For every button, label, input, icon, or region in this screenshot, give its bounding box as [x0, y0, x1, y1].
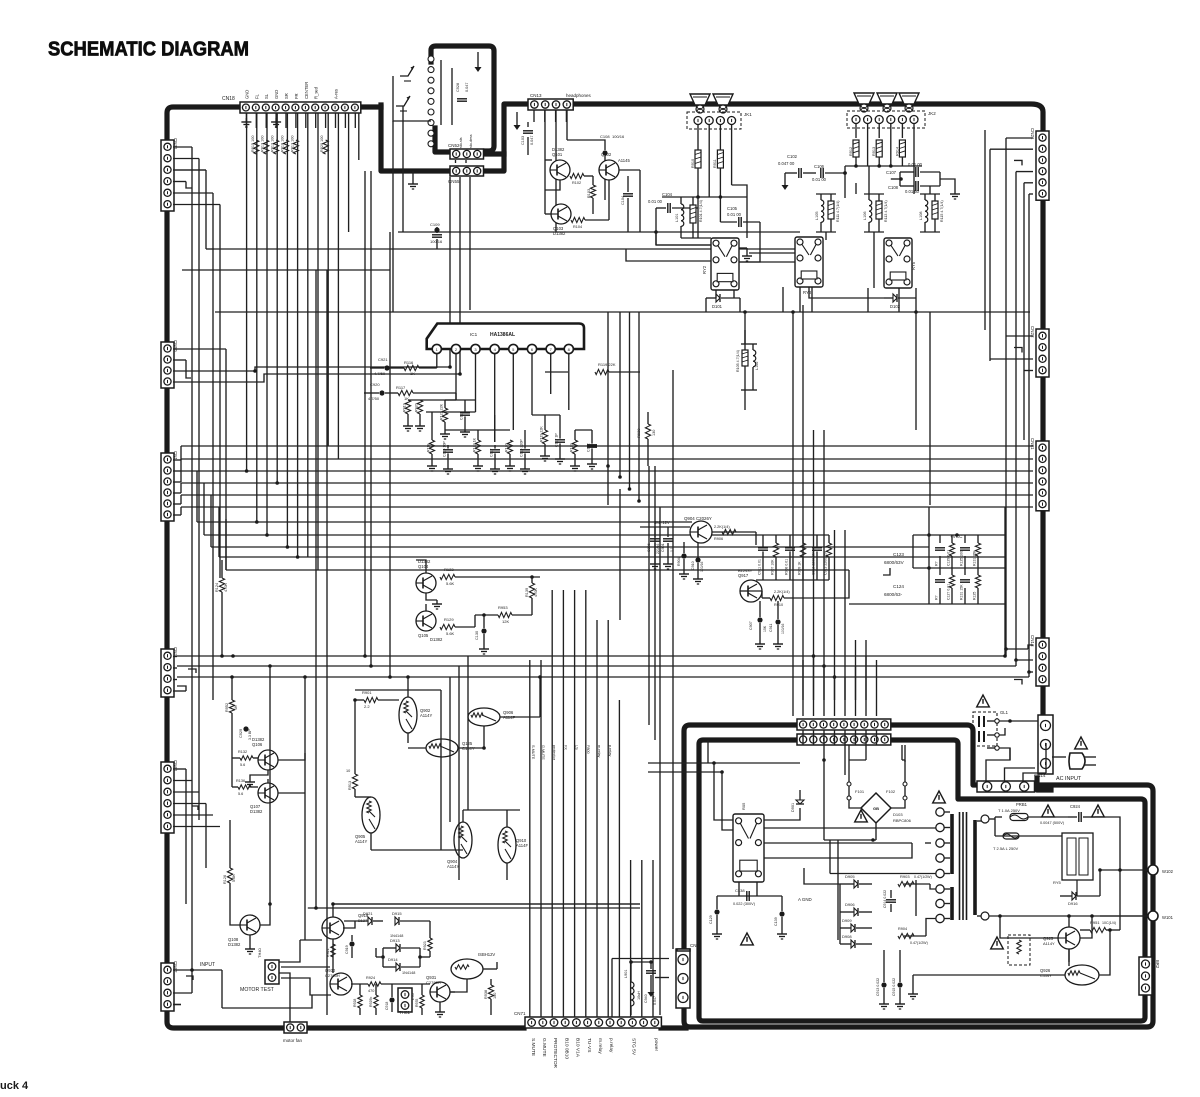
svg-text:R953: R953	[498, 605, 508, 610]
svg-text:6800/63V: 6800/63V	[884, 560, 905, 565]
svg-text:C116 220P: C116 220P	[520, 439, 524, 457]
CN2 stubs	[612, 959, 669, 1018]
svg-text:L901: L901	[624, 970, 628, 978]
bus junction dots	[190, 171, 1007, 972]
AC switch contacts	[987, 719, 1038, 760]
main board border left seg1	[164, 210, 169, 342]
power amp RC cluster	[740, 535, 849, 649]
svg-text:RY5: RY5	[1053, 880, 1061, 885]
JK3 headphone jack interior	[393, 52, 482, 148]
svg-text:S.MUTE: S.MUTE	[531, 745, 535, 760]
svg-text:R929: R929	[636, 428, 641, 438]
fuse PRB1	[998, 802, 1028, 821]
diode D913	[383, 934, 420, 952]
svg-text:100/16: 100/16	[781, 624, 785, 634]
svg-text:Q101: Q101	[552, 152, 563, 157]
svg-text:CN81: CN81	[1030, 438, 1035, 450]
speaker JK1 right	[713, 94, 733, 113]
svg-text:CN3: CN3	[173, 647, 178, 656]
svg-text:C108: C108	[888, 185, 899, 190]
svg-text:GND: GND	[244, 90, 249, 99]
JK1 wires and resistors	[662, 125, 747, 238]
svg-text:R904: R904	[677, 557, 681, 566]
power rail verticals	[793, 130, 985, 716]
svg-text:R914: R914	[895, 147, 899, 156]
svg-text:R136: R136	[236, 779, 245, 783]
connector CN13R	[1030, 635, 1049, 686]
upper horizontal buses	[182, 232, 1030, 312]
svg-text:R123: R123	[444, 567, 454, 572]
svg-text:R113 4.7(1/4): R113 4.7(1/4)	[884, 200, 888, 222]
svg-text:power: power	[653, 1038, 659, 1051]
digital transistor Q905	[355, 797, 380, 844]
svg-text:470K: 470K	[534, 588, 538, 597]
svg-text:A-res: A-res	[334, 89, 339, 99]
svg-text:2.2K(1/4): 2.2K(1/4)	[714, 525, 730, 529]
svg-text:D909: D909	[842, 918, 852, 923]
svg-text:R125: R125	[973, 592, 977, 600]
svg-text:C117: C117	[490, 449, 494, 457]
svg-text:R116: R116	[404, 360, 414, 365]
L105 R111 network	[815, 194, 840, 232]
VCC filter caps C123 C124	[849, 533, 1005, 604]
resistor R139	[525, 577, 538, 615]
JK3 A3 thick stub	[435, 128, 450, 152]
terminal W102	[1100, 865, 1174, 875]
svg-text:p.relay: p.relay	[608, 745, 612, 756]
connector CN14	[1034, 715, 1053, 778]
CN18 pin labels	[244, 82, 338, 99]
svg-text:D921: D921	[363, 911, 373, 916]
svg-text:R129: R129	[444, 617, 454, 622]
svg-text:C119 10P: C119 10P	[443, 441, 447, 457]
svg-text:TU-VS: TU-VS	[586, 1038, 592, 1052]
JK1 terminal box	[687, 112, 752, 129]
svg-text:R952: R952	[225, 703, 229, 712]
svg-text:0.047 00: 0.047 00	[778, 161, 795, 166]
svg-text:R120: R120	[505, 443, 509, 452]
svg-text:D1382: D1382	[430, 637, 443, 642]
GL1 dashed box	[973, 710, 1009, 746]
svg-text:CN31: CN31	[173, 138, 178, 150]
svg-text:5.6K: 5.6K	[446, 581, 455, 586]
title text SCHEMATIC DIAGRAM	[48, 38, 249, 61]
main board border right seg3	[1040, 510, 1045, 638]
AC INPUT text	[1056, 776, 1082, 789]
svg-text:3.3 BP: 3.3 BP	[248, 729, 252, 740]
svg-text:SR: SR	[284, 93, 289, 99]
svg-text:p.relay: p.relay	[608, 1038, 614, 1053]
resistor R913b	[346, 760, 358, 797]
svg-text:IC1: IC1	[470, 332, 478, 337]
power amp input parts	[640, 520, 756, 584]
svg-text:R908 0.01: R908 0.01	[785, 559, 789, 575]
connector CN62	[161, 961, 178, 1011]
svg-text:C104: C104	[621, 196, 625, 205]
svg-text:R915 100: R915 100	[251, 136, 255, 152]
svg-text:Q102: Q102	[601, 152, 612, 157]
svg-text:R938: R938	[484, 990, 488, 999]
connector TH81	[398, 988, 412, 1015]
center long verticals	[270, 171, 673, 1015]
transistor Q930	[325, 968, 352, 995]
svg-text:GB: GB	[873, 806, 879, 811]
svg-text:R906: R906	[714, 537, 723, 541]
svg-text:C139: C139	[774, 917, 778, 926]
JK1 crossover caps	[648, 192, 760, 262]
svg-text:C109: C109	[430, 222, 440, 227]
svg-text:OPTION2: OPTION2	[1058, 783, 1082, 789]
sub extras	[908, 836, 1077, 999]
diode D916	[1060, 892, 1100, 906]
svg-text:R935: R935	[415, 999, 419, 1007]
connector CN7 row	[514, 1011, 661, 1028]
svg-text:m.relay: m.relay	[597, 745, 601, 758]
connector BR2 right	[1139, 957, 1160, 995]
svg-text:0.47(1/2W): 0.47(1/2W)	[914, 875, 932, 879]
svg-text:HA1386AL: HA1386AL	[490, 332, 515, 338]
warning triangle sub1	[933, 791, 946, 803]
svg-text:0.022 (300V): 0.022 (300V)	[733, 902, 756, 906]
svg-text:C118: C118	[460, 412, 464, 420]
fuse F101	[847, 782, 865, 800]
relay RY5	[884, 238, 916, 288]
AC wiring small	[986, 743, 1066, 781]
diode D102	[884, 294, 916, 309]
JK2 coupling caps	[778, 154, 960, 199]
main board border left seg2	[164, 387, 169, 453]
headphone amp small parts	[545, 160, 640, 232]
inductor L901	[624, 962, 641, 1015]
CN18 stub wires	[241, 113, 355, 128]
digital transistor Q906	[468, 708, 515, 726]
svg-text:C105: C105	[727, 206, 738, 211]
digital transistor Q125	[426, 739, 475, 757]
bridge rectifier D103	[861, 793, 912, 823]
svg-text:m.relay: m.relay	[597, 1038, 603, 1054]
right long verticals	[929, 507, 1005, 656]
svg-text:5.6: 5.6	[238, 792, 243, 796]
svg-text:Q904 C2026Y: Q904 C2026Y	[684, 516, 712, 521]
svg-text:C123: C123	[893, 552, 904, 557]
connector CN11 top row	[797, 719, 901, 730]
connector CN50	[161, 340, 178, 388]
svg-text:100/16: 100/16	[430, 239, 443, 244]
staircase verticals	[204, 483, 226, 570]
L101 R101 network	[675, 197, 711, 238]
transistor Q104	[416, 559, 436, 593]
svg-text:B10 V1A: B10 V1A	[575, 1038, 581, 1058]
svg-text:RBPC806: RBPC806	[893, 818, 912, 823]
svg-text:C102: C102	[787, 154, 798, 159]
svg-text:CN1: CN1	[173, 451, 178, 460]
transistor Q105	[416, 611, 443, 642]
svg-text:D1382: D1382	[553, 231, 566, 236]
CN52 to elbow thick	[484, 151, 504, 156]
RY2 wiring	[656, 245, 760, 312]
svg-text:R104: R104	[573, 225, 582, 229]
svg-text:6800/63-: 6800/63-	[884, 592, 903, 597]
svg-text:100/16: 100/16	[612, 134, 625, 139]
svg-text:12K: 12K	[502, 619, 509, 624]
connector CN31	[161, 138, 178, 211]
main board border bottom seg2	[309, 1025, 524, 1030]
svg-text:TH40: TH40	[257, 947, 262, 958]
svg-text:D905: D905	[845, 874, 855, 879]
svg-text:5.6K: 5.6K	[232, 874, 236, 882]
transistor Q904b C2026Y	[684, 516, 712, 543]
terminal W101	[1100, 911, 1174, 921]
svg-text:5.6: 5.6	[240, 763, 245, 767]
svg-text:B1243Y: B1243Y	[738, 568, 753, 573]
svg-text:R?: R?	[935, 561, 939, 566]
main board border bottom seg3	[661, 1025, 686, 1030]
svg-text:R05: R05	[741, 802, 746, 810]
connector CN13 headphones	[528, 93, 592, 110]
svg-text:C928: C928	[456, 83, 460, 92]
resistor R929	[636, 412, 656, 466]
relay RY4 power	[733, 802, 764, 882]
svg-text:R125 100: R125 100	[960, 551, 964, 566]
relay RY5b	[1053, 833, 1093, 885]
svg-text:2.2K(1/4): 2.2K(1/4)	[774, 590, 790, 594]
svg-text:L106: L106	[863, 212, 867, 220]
svg-text:RY3: RY3	[803, 290, 812, 295]
connector CN3	[161, 647, 178, 697]
AC input bracket thick	[1037, 778, 1051, 790]
svg-text:A114Y: A114Y	[1043, 941, 1055, 946]
CN3 stub wires	[173, 657, 196, 692]
main board border left seg3	[164, 519, 169, 649]
diode D915	[392, 911, 430, 925]
IC1 lower component cluster	[403, 400, 598, 474]
mid vertical labels	[531, 745, 612, 761]
svg-text:R928: R928	[353, 999, 357, 1007]
main board border left-bottom corner	[167, 1012, 284, 1028]
svg-text:JK1: JK1	[744, 112, 752, 117]
svg-text:PROTECTOR: PROTECTOR	[552, 1038, 558, 1069]
connector CN52	[448, 143, 484, 159]
digital transistor Q904	[447, 822, 472, 869]
page footnote uck 4	[0, 1080, 29, 1092]
JK3 descend wires	[393, 121, 470, 374]
svg-text:4.7/50: 4.7/50	[368, 396, 380, 401]
svg-text:C929: C929	[239, 729, 243, 738]
svg-text:C130: C130	[475, 631, 479, 640]
main board border right seg2	[1040, 376, 1045, 441]
svg-text:3M+12V: 3M+12V	[654, 520, 670, 525]
svg-text:R126: R126	[223, 875, 227, 884]
resistor R901	[355, 690, 399, 709]
transistor Q107	[250, 783, 278, 814]
svg-text:D914: D914	[388, 957, 398, 962]
transistor Q917	[738, 568, 762, 602]
diode D101	[706, 294, 740, 309]
transformer T901	[936, 808, 984, 923]
svg-text:R119 22K: R119 22K	[598, 362, 616, 367]
svg-text:4.7/50: 4.7/50	[374, 371, 386, 376]
power sub-board outer border	[684, 725, 1153, 1027]
svg-text:10: 10	[346, 769, 350, 773]
svg-text:R131 15K: R131 15K	[973, 550, 977, 566]
svg-text:PRB1: PRB1	[1016, 802, 1028, 807]
svg-text:R131 15K: R131 15K	[960, 584, 964, 600]
svg-text:R912: R912	[849, 147, 853, 156]
resistor R951	[1080, 920, 1120, 933]
IC right verticals	[608, 312, 639, 501]
svg-text:D906: D906	[845, 902, 855, 907]
svg-text:CN18: CN18	[222, 96, 235, 102]
svg-text:C901: C901	[661, 543, 665, 552]
svg-text:C913 0.022: C913 0.022	[876, 978, 880, 996]
L106 R113 network	[863, 194, 888, 232]
speaker JK2 c	[899, 93, 919, 112]
transistor Q108	[228, 915, 260, 947]
svg-text:D916: D916	[1068, 901, 1078, 906]
CN11 descend wires	[803, 730, 905, 940]
connector CN2 bottom	[676, 943, 699, 1008]
CN50 stub wires	[173, 349, 460, 570]
svg-text:C129 0.01: C129 0.01	[947, 550, 951, 566]
svg-text:GND: GND	[274, 90, 279, 99]
svg-text:SL: SL	[264, 93, 269, 99]
svg-text:130: 130	[652, 430, 656, 436]
svg-text:R118: R118	[427, 444, 431, 452]
connector CN21	[1030, 128, 1049, 200]
svg-text:R103: R103	[587, 189, 591, 198]
svg-text:R913: R913	[872, 147, 876, 156]
connector MOTOR TEST header	[240, 947, 279, 993]
svg-text:C104: C104	[662, 192, 673, 197]
svg-text:R920 100: R920 100	[320, 136, 324, 152]
svg-text:R913: R913	[348, 781, 352, 790]
transistor Q101	[550, 147, 570, 180]
svg-text:C924: C924	[1070, 804, 1081, 809]
svg-text:D1382: D1382	[250, 809, 263, 814]
svg-text:CN50: CN50	[173, 340, 178, 352]
svg-text:STG 5V: STG 5V	[631, 1038, 637, 1056]
svg-text:CN2: CN2	[690, 943, 699, 948]
svg-text:GL1: GL1	[1000, 710, 1009, 715]
diode D901	[791, 790, 804, 818]
svg-text:R?: R?	[935, 595, 939, 600]
main board border right seg1	[1040, 199, 1045, 329]
warning triangle GL1	[977, 695, 990, 707]
motor drive wiring	[281, 904, 640, 1017]
svg-text:0.047: 0.047	[465, 82, 469, 92]
svg-text:R101 4.7(1/4): R101 4.7(1/4)	[699, 200, 703, 222]
main board border left seg4	[164, 698, 169, 762]
main board border top-left	[167, 107, 240, 140]
connector CN55	[448, 166, 484, 184]
relay interconnect	[626, 230, 899, 312]
svg-text:R911: R911	[713, 159, 717, 168]
transistor Q926	[1040, 965, 1099, 985]
transistor Q103	[551, 204, 571, 236]
warning triangle bridge	[855, 810, 868, 822]
main board border CN55 to up elbow	[484, 104, 528, 171]
svg-text:RY2: RY2	[702, 265, 707, 274]
svg-text:Q104: Q104	[418, 564, 429, 569]
output stage wiring	[916, 817, 1148, 975]
svg-text:R123: R123	[570, 443, 574, 452]
transistor Q102	[599, 152, 630, 180]
svg-text:A GND: A GND	[798, 897, 812, 902]
CN7 labels	[530, 1038, 659, 1069]
svg-text:R139: R139	[525, 588, 529, 597]
svg-text:R105 4.7(1/4): R105 4.7(1/4)	[736, 350, 740, 372]
svg-text:F101: F101	[855, 789, 865, 794]
svg-text:sto-dess: sto-dess	[469, 134, 473, 148]
main horizontal buses y446-507	[181, 446, 1033, 515]
main board border elbow down to CN55 row	[381, 105, 450, 171]
svg-text:0.0047 (500V): 0.0047 (500V)	[1040, 821, 1065, 825]
lower horizontal links	[308, 690, 640, 908]
svg-text:R132: R132	[238, 750, 247, 754]
IC1 pin wires	[437, 354, 569, 442]
svg-text:R122 1K: R122 1K	[473, 437, 477, 452]
svg-text:A1145: A1145	[618, 158, 630, 163]
svg-text:1N4148: 1N4148	[390, 934, 403, 938]
connector CN18	[222, 96, 361, 113]
svg-text:Q106: Q106	[252, 742, 263, 747]
JK3 block outline	[431, 46, 494, 151]
svg-text:C107: C107	[886, 170, 897, 175]
capacitor C940	[644, 962, 657, 1005]
svg-text:R919: R919	[403, 403, 407, 412]
svg-text:D1382: D1382	[552, 147, 565, 152]
svg-text:uck 4: uck 4	[0, 1080, 29, 1092]
svg-text:10uH: 10uH	[637, 991, 641, 1000]
svg-text:C921: C921	[378, 357, 388, 362]
svg-text:D913: D913	[390, 938, 400, 943]
svg-text:C919: C919	[345, 945, 349, 954]
digital transistor Q910	[498, 827, 528, 863]
transistor Q919	[322, 913, 373, 939]
transistor Q931	[426, 975, 450, 1002]
svg-text:R119 22K: R119 22K	[540, 426, 544, 442]
svg-text:100/16: 100/16	[700, 562, 704, 572]
connector CN61	[161, 760, 178, 833]
JK2 wires and resistors	[845, 124, 922, 168]
CN62 stub wires	[173, 962, 222, 1005]
svg-text:motor fan: motor fan	[283, 1038, 303, 1043]
IC lamp ISBH12V	[451, 952, 495, 979]
capacitor C109	[430, 222, 443, 249]
svg-text:C911: C911	[769, 624, 773, 632]
svg-text:C117 1P: C117 1P	[555, 433, 559, 447]
capacitor C924	[1040, 804, 1104, 825]
connector CN30 motor fan	[283, 1022, 307, 1043]
power sub-board inner border	[699, 740, 1145, 1021]
svg-text:R929b: R929b	[369, 997, 373, 1007]
svg-text:0.01 50: 0.01 50	[905, 189, 920, 194]
svg-text:CENTER: CENTER	[304, 82, 309, 99]
svg-text:C940: C940	[644, 994, 648, 1003]
warning triangle PRB	[1042, 805, 1055, 817]
svg-text:R903: R903	[900, 874, 910, 879]
svg-text:D915: D915	[392, 911, 402, 916]
svg-text:sto-sts: sto-sts	[459, 137, 463, 148]
svg-text:A3: A3	[432, 126, 437, 132]
digital transistor wiring	[355, 677, 540, 880]
svg-text:F800: F800	[586, 745, 590, 754]
svg-text:C914 0.022: C914 0.022	[883, 890, 887, 908]
connector CN1	[161, 451, 178, 521]
speaker JK2 b	[877, 93, 897, 112]
svg-text:R913 100: R913 100	[261, 136, 265, 152]
svg-text:R910: R910	[691, 159, 695, 168]
